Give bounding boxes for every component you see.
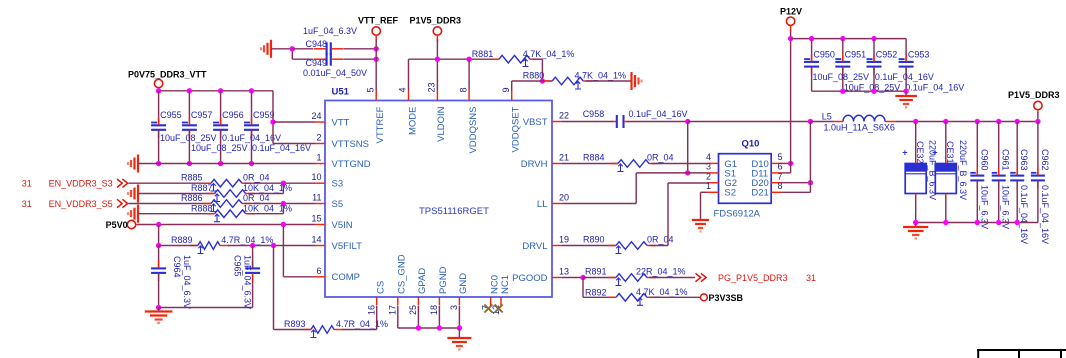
junction C964 gnd — [156, 305, 161, 310]
svg-text:R880: R880 — [523, 71, 545, 81]
value CE31 220uF_B_6.3V (vertical) — [958, 140, 968, 200]
value C949 0.01uF_04_50V — [303, 68, 367, 78]
wire gnd stem — [458, 328, 460, 338]
value C961 10uF_6.3V (vertical) — [1001, 185, 1011, 229]
svg-text:+: + — [902, 148, 907, 158]
wire C964 gnd stem — [158, 308, 160, 312]
value CE32 220uF_B_6.3V (vertical) — [928, 140, 938, 200]
junction output rail C961 — [996, 119, 1001, 124]
junction C965 top — [250, 243, 255, 248]
wire to C948 left — [292, 48, 313, 50]
wire gnd to R888 — [138, 213, 215, 215]
wire R893 to CS — [342, 329, 377, 331]
junction S1 — [685, 170, 690, 175]
value C960 10uF_6.3V (vertical) — [979, 185, 989, 229]
wire P12V bottom bus — [812, 90, 907, 92]
svg-text:1uF_04_6.3V: 1uF_04_6.3V — [303, 26, 357, 36]
wire EN_S5 to R886 — [129, 203, 212, 205]
svg-text:GND: GND — [458, 273, 469, 294]
capacitor C955 — [151, 110, 182, 138]
svg-text:S5: S5 — [332, 199, 344, 210]
svg-text:P1V5_DDR3: P1V5_DDR3 — [1008, 90, 1060, 100]
svg-text:R887: R887 — [191, 183, 213, 193]
value R889 4.7R_04_1% — [221, 235, 273, 245]
capacitor C960 — [970, 122, 989, 223]
U51 pin 11 S5 (left) — [312, 193, 343, 210]
svg-text:C963: C963 — [1019, 149, 1029, 171]
svg-text:C960: C960 — [979, 149, 989, 171]
U51 pin 16 CS (bottom) — [367, 281, 387, 315]
svg-text:15: 15 — [311, 214, 321, 224]
junction VTT pin24 — [270, 119, 275, 124]
resistor R888 — [191, 203, 255, 221]
wire C964 branch down — [158, 225, 160, 246]
junction bottom bus C951 — [840, 89, 845, 94]
wire C958 to LL node — [628, 121, 688, 123]
capacitor C952 — [867, 50, 898, 75]
capacitor C956 — [213, 110, 244, 138]
svg-text:EN_VDDR3_S5: EN_VDDR3_S5 — [49, 199, 113, 209]
wire C965 upper — [252, 246, 254, 268]
wire LL node to Q10 drains — [688, 121, 811, 123]
svg-text:31: 31 — [22, 179, 32, 189]
junction C948 left — [290, 46, 295, 51]
svg-text:1: 1 — [316, 153, 321, 163]
svg-text:1uF_04_6.3V: 1uF_04_6.3V — [243, 255, 253, 309]
U51 pin 9 VDDQSET (top) — [501, 87, 522, 152]
value C959 0.1uF_04_16V — [252, 143, 311, 153]
svg-text:R886: R886 — [181, 193, 203, 203]
U51 pin 6 COMP (left) — [315, 266, 360, 283]
svg-text:R881: R881 — [472, 49, 494, 59]
wire C949 right — [344, 58, 376, 60]
resistor R892 — [585, 288, 656, 306]
svg-text:19: 19 — [559, 235, 569, 245]
svg-text:0.1uF_04_16V: 0.1uF_04_16V — [629, 109, 688, 119]
capacitor C950 — [804, 50, 835, 75]
svg-text:5: 5 — [778, 152, 783, 162]
wire R887 to S3 node — [248, 193, 283, 195]
wire R884 to G1 — [652, 163, 708, 165]
net EN_VDDR3_S3 label — [22, 179, 128, 189]
svg-text:C955: C955 — [160, 110, 182, 120]
svg-text:S3: S3 — [332, 179, 344, 190]
ground (right of R880) — [632, 72, 642, 90]
svg-text:VBST: VBST — [523, 117, 548, 128]
svg-text:C965: C965 — [233, 255, 243, 277]
wire to pin 2 — [273, 143, 315, 145]
value C948 1uF_04_6.3V — [303, 26, 357, 36]
svg-text:0R_04: 0R_04 — [647, 153, 674, 163]
resistor R884 — [583, 153, 658, 172]
wire C956 upper — [220, 91, 222, 124]
junction output rail C960 — [975, 119, 980, 124]
wire to R893 — [274, 329, 312, 331]
svg-text:VLDOIN: VLDOIN — [436, 106, 447, 142]
ground (C964/C965) — [145, 312, 173, 324]
wire S5 to R888 — [282, 204, 284, 214]
junction R889 left — [156, 243, 161, 248]
svg-text:VTT: VTT — [332, 117, 350, 128]
junction top bus C957 — [187, 88, 192, 93]
wire G2 riser — [667, 183, 669, 246]
wire R880 to ground — [586, 80, 632, 82]
value R887 10K_04_1% — [243, 183, 292, 193]
wire node to R880 — [542, 80, 552, 82]
junction output gnd C963 — [1015, 220, 1020, 225]
wire VTT top bus — [159, 90, 273, 92]
junction output gnd CE31 — [943, 220, 948, 225]
wire V5IN branch down to COMP — [282, 225, 284, 277]
resistor R886 — [181, 193, 251, 211]
wire C957 upper — [188, 91, 190, 124]
net PG_P1V5_DDR3 label — [696, 273, 817, 283]
U51 pin 1 VTTGND (left) — [315, 153, 371, 170]
svg-text:4: 4 — [398, 87, 408, 92]
U51 pin 17 CS_GND (bottom) — [388, 254, 408, 315]
U51 pin 7 NC0 (bottom) — [481, 275, 501, 313]
inductor L5 — [822, 111, 896, 121]
wire C955 upper — [158, 91, 160, 124]
Q10 pin 1 S2 — [706, 181, 736, 199]
resistor R890 — [583, 235, 656, 254]
svg-text:2: 2 — [706, 171, 711, 181]
wire D11 to P12V riser — [781, 172, 791, 174]
svg-text:VTTGND: VTTGND — [332, 159, 371, 170]
wire CS vertical — [376, 306, 378, 330]
svg-text:0R_04: 0R_04 — [647, 235, 674, 245]
wire to pin 24 — [273, 121, 315, 123]
svg-text:0.01uF_04_50V: 0.01uF_04_50V — [303, 68, 367, 78]
svg-text:U51: U51 — [332, 87, 350, 98]
wire R885 to pin 10 — [245, 182, 316, 184]
ground (U51 GND pins) — [447, 338, 471, 350]
wire C965 lower — [252, 274, 254, 308]
resistor R880 — [523, 71, 592, 89]
wire C964 lower — [158, 274, 160, 308]
ground (R887) — [128, 185, 138, 203]
junction top bus C951 — [840, 36, 845, 41]
U51 pin 3 GND (bottom) — [449, 273, 469, 310]
wire R890 right — [650, 245, 669, 247]
junction output gnd CE32 — [913, 220, 918, 225]
wire P12V riser — [790, 31, 792, 173]
junction output rail C963 — [1015, 119, 1020, 124]
ground (Q10 S2) — [692, 220, 709, 232]
junction output rail CE32 — [913, 119, 918, 124]
svg-text:4.7R_04_1%: 4.7R_04_1% — [221, 235, 273, 245]
wire MODE branch horizontal — [409, 58, 500, 60]
svg-text:R892: R892 — [585, 288, 607, 298]
value R886 0R_04 — [243, 193, 270, 203]
U51 pin 4 MODE (top) — [398, 87, 419, 135]
junction gnd bus C959 — [249, 161, 254, 166]
junction output rail CE31 — [943, 119, 948, 124]
ground (left of C948) — [261, 40, 271, 58]
resistor R885 — [181, 173, 251, 191]
U51 pin 24 VTT (left) — [311, 111, 349, 128]
svg-text:1: 1 — [706, 181, 711, 191]
junction top bus C952 — [871, 36, 876, 41]
value R885 0R_04 — [243, 173, 270, 183]
Q10 pin 7 D20 — [751, 171, 782, 189]
wire P1V5_DDR3 to pin 23 — [436, 39, 438, 91]
wire P12V top bus — [791, 38, 907, 40]
IC U51 TPS51116RGET body — [325, 87, 552, 298]
svg-text:CE32: CE32 — [915, 141, 925, 164]
svg-text:C962: C962 — [1040, 149, 1050, 171]
Q10 pin 5 D10 — [751, 152, 782, 170]
value C951 10uF_08_25V — [844, 83, 901, 93]
wire R889 to pin 14 — [228, 245, 315, 247]
svg-text:0R_04: 0R_04 — [243, 193, 270, 203]
svg-text:4.7K_04_1%: 4.7K_04_1% — [636, 287, 688, 297]
wire gnd to C948/C949 — [271, 48, 292, 50]
svg-text:C959: C959 — [253, 110, 275, 120]
value R888 10K_04_1% — [243, 203, 292, 213]
wire C951 lower — [842, 67, 844, 91]
junction R880-R881 — [540, 78, 545, 83]
svg-text:0.1uF_04_16V: 0.1uF_04_16V — [875, 72, 934, 82]
wire C952 lower — [873, 67, 875, 91]
wire L5 to output — [895, 121, 1038, 123]
wire R891 to chevron — [650, 277, 696, 279]
wire S3 to R887 — [282, 183, 284, 193]
wire VTT bus right drop — [272, 91, 274, 144]
wire R892 to P3V3SB — [650, 296, 701, 298]
svg-text:10: 10 — [311, 172, 321, 182]
U51 pin 15 V5IN (left) — [311, 214, 352, 231]
U51 pin 20 LL (right) — [537, 193, 569, 210]
wire MODE drop to pin 4 — [408, 59, 410, 90]
svg-text:6: 6 — [316, 266, 321, 276]
Q10 pin 3 S1 — [706, 162, 736, 180]
svg-text:FDS6912A: FDS6912A — [714, 209, 761, 220]
svg-text:0R_04: 0R_04 — [243, 173, 270, 183]
U51 pin 18 PGND (bottom) — [429, 266, 449, 315]
wire D10 to P12V riser — [781, 162, 791, 164]
svg-text:0.1uF_04_16V: 0.1uF_04_16V — [1019, 185, 1029, 244]
wire C959 lower — [251, 131, 253, 164]
value C962 0.1uF_04_16V (vertical) — [1040, 185, 1050, 244]
svg-text:C950: C950 — [813, 50, 835, 60]
wire CS_GND vertical — [397, 306, 399, 328]
value C964 1uF_04_6.3V (vertical) — [182, 255, 192, 309]
wire C950 upper — [811, 39, 813, 61]
wire LL horizontal — [562, 203, 636, 205]
ground (P12V caps) — [895, 96, 917, 108]
svg-text:220uF_B_6.3V: 220uF_B_6.3V — [958, 140, 968, 200]
svg-text:16: 16 — [367, 305, 377, 315]
svg-text:COMP: COMP — [332, 272, 361, 283]
wire PGOOD to R892 — [582, 278, 584, 298]
wire R881 right — [533, 58, 542, 60]
junction gnd bus C957 — [187, 161, 192, 166]
capacitor C953 — [899, 50, 930, 75]
junction S5 node — [281, 201, 286, 206]
terminal P0V75_DDR3_VTT — [128, 70, 207, 92]
junction PGND — [437, 325, 442, 330]
U51 pin 12 NC1 (bottom) — [491, 275, 511, 315]
wire C964 upper — [158, 246, 160, 268]
wire C950 lower — [811, 67, 813, 91]
value R881 4.7K_04_1% — [523, 49, 575, 59]
svg-text:PGOOD: PGOOD — [512, 273, 548, 284]
svg-text:VDDQSNS: VDDQSNS — [468, 107, 479, 154]
junction D10 — [788, 161, 793, 166]
svg-text:V5FILT: V5FILT — [332, 241, 363, 252]
wire P5V0 to pin 15 — [138, 224, 315, 226]
svg-text:25: 25 — [408, 305, 418, 315]
wire pin9 up — [511, 81, 513, 91]
terminal P1V5_DDR3 (top) — [410, 16, 462, 43]
wire VTT_REF to pin 5 — [375, 39, 377, 91]
capacitor C964 — [151, 256, 182, 281]
terminal P1V5_DDR3 (right) — [1008, 90, 1060, 113]
svg-text:EN_VDDR3_S3: EN_VDDR3_S3 — [49, 179, 113, 189]
wire C953 lower — [905, 67, 907, 91]
terminal P5V0 — [106, 220, 139, 230]
svg-text:DRVH: DRVH — [521, 159, 548, 170]
U51 pin 13 PGOOD (right) — [512, 267, 569, 284]
capacitor CE32 (electrolytic) — [902, 122, 926, 223]
junction R893 branch — [271, 243, 276, 248]
svg-text:C948: C948 — [306, 39, 328, 49]
transistor Q10 FDS6912A body — [714, 139, 772, 220]
junction D20 — [808, 180, 813, 185]
svg-text:9: 9 — [501, 87, 511, 92]
junction bottom bus C952 — [871, 89, 876, 94]
wire output gnd bus — [916, 222, 1038, 224]
svg-text:R888: R888 — [191, 203, 213, 213]
resistor R887 — [191, 183, 255, 201]
wire D20/D21 riser — [809, 122, 811, 193]
junction output gnd C960 — [975, 220, 980, 225]
wire GND vertical — [458, 306, 460, 328]
wire to pin 6 COMP — [283, 276, 315, 278]
wire bottom gnd bus — [398, 327, 460, 329]
svg-text:NC1: NC1 — [500, 275, 511, 294]
wire C959 upper — [251, 91, 253, 124]
wire node to R889 — [159, 245, 198, 247]
svg-text:23: 23 — [427, 82, 437, 92]
svg-text:R884: R884 — [583, 153, 605, 163]
svg-text:Q10: Q10 — [742, 139, 760, 150]
junction V5IN-COMP branch — [281, 222, 286, 227]
junction GPAD — [416, 325, 421, 330]
capacitor C959 — [244, 110, 275, 138]
svg-text:4.7R_04_1%: 4.7R_04_1% — [336, 319, 388, 329]
svg-text:10uF_08_25V: 10uF_08_25V — [160, 133, 217, 143]
value C958 0.1uF_04_16V — [629, 109, 688, 119]
svg-text:14: 14 — [311, 235, 321, 245]
U51 pin 8 VDDQSNS (top) — [458, 87, 479, 153]
svg-text:31: 31 — [22, 199, 32, 209]
junction VTTREF-C949 — [374, 57, 379, 62]
svg-text:C951: C951 — [845, 50, 867, 60]
junction bottom bus gnd — [903, 89, 908, 94]
svg-text:L5: L5 — [822, 111, 832, 121]
wire pin9 to R880 node — [512, 80, 543, 82]
terminal P3V3SB — [701, 293, 744, 303]
wire PGOOD out — [562, 277, 583, 279]
resistor R881 — [472, 49, 539, 67]
svg-text:R890: R890 — [583, 235, 605, 245]
svg-text:GPAD: GPAD — [417, 268, 428, 294]
value L5 1.0uH_11A_S6X6 — [824, 123, 895, 133]
svg-text:0.1uF_04_16V: 0.1uF_04_16V — [1040, 185, 1050, 244]
value C957 10uF_08_25V — [191, 143, 248, 153]
svg-text:VTTSNS: VTTSNS — [332, 139, 369, 150]
svg-text:R885: R885 — [181, 173, 203, 183]
value C950 10uF_08_25V — [813, 72, 870, 82]
svg-text:CS_GND: CS_GND — [397, 254, 408, 294]
svg-text:10uF_08_25V: 10uF_08_25V — [813, 72, 870, 82]
svg-text:0.1uF_04_16V: 0.1uF_04_16V — [905, 83, 964, 93]
wire DRVH to R884 — [562, 163, 618, 165]
junction top bus C956 — [218, 88, 223, 93]
U51 pin 14 V5FILT (left) — [311, 235, 362, 252]
wire VBST to C958 — [562, 121, 613, 123]
wire output gnd stem — [915, 223, 917, 228]
wire to R892 — [583, 296, 616, 298]
wire P12V gnd stem — [905, 91, 907, 96]
svg-text:31: 31 — [806, 273, 816, 283]
svg-text:0.1uF_04_16V: 0.1uF_04_16V — [222, 133, 281, 143]
value R892 4.7K_04_1% — [636, 287, 688, 297]
svg-text:C956: C956 — [222, 110, 244, 120]
wire C957 lower — [188, 131, 190, 164]
value R891 22R_04_1% — [636, 267, 686, 277]
svg-text:5: 5 — [365, 87, 375, 92]
Q10 pin 2 G2 — [706, 171, 737, 189]
svg-text:C958: C958 — [583, 109, 605, 119]
wire C951 upper — [842, 39, 844, 61]
terminal VTT_REF — [358, 16, 399, 43]
value C953 0.1uF_04_16V — [905, 83, 964, 93]
svg-text:10uF_08_25V: 10uF_08_25V — [191, 143, 248, 153]
svg-text:C964: C964 — [172, 256, 182, 278]
wire drop to pin 8 — [468, 59, 470, 90]
wire LL node drop — [687, 122, 689, 173]
terminal P12V — [780, 7, 802, 32]
svg-text:VDDQSET: VDDQSET — [511, 106, 522, 152]
wire PGND vertical — [438, 306, 440, 328]
wire vertical C948-C949 left — [291, 49, 293, 59]
svg-text:P0V75_DDR3_VTT: P0V75_DDR3_VTT — [128, 70, 207, 80]
wire LL riser — [635, 173, 637, 204]
capacitor C958 — [583, 109, 629, 128]
svg-text:3: 3 — [706, 162, 711, 172]
svg-text:4.7K_04_1%: 4.7K_04_1% — [575, 71, 627, 81]
junction top bus C955 — [156, 88, 161, 93]
resistor R893 — [284, 319, 343, 337]
junction pin23 net — [435, 57, 440, 62]
junction top bus C950 — [809, 36, 814, 41]
junction output gnd C961 — [996, 220, 1001, 225]
svg-text:DRVL: DRVL — [522, 241, 547, 252]
Q10 pin 6 D11 — [751, 162, 782, 180]
wire C955 lower — [158, 131, 160, 164]
svg-text:V5IN: V5IN — [332, 220, 353, 231]
svg-text:2: 2 — [316, 133, 321, 143]
svg-text:VTT_REF: VTT_REF — [358, 16, 399, 26]
svg-text:R891: R891 — [585, 267, 607, 277]
svg-text:R889: R889 — [171, 235, 193, 245]
wire C953 upper — [905, 39, 907, 61]
ground (VTT cap bus) — [128, 155, 138, 173]
wire DRVL to R890 — [562, 245, 616, 247]
